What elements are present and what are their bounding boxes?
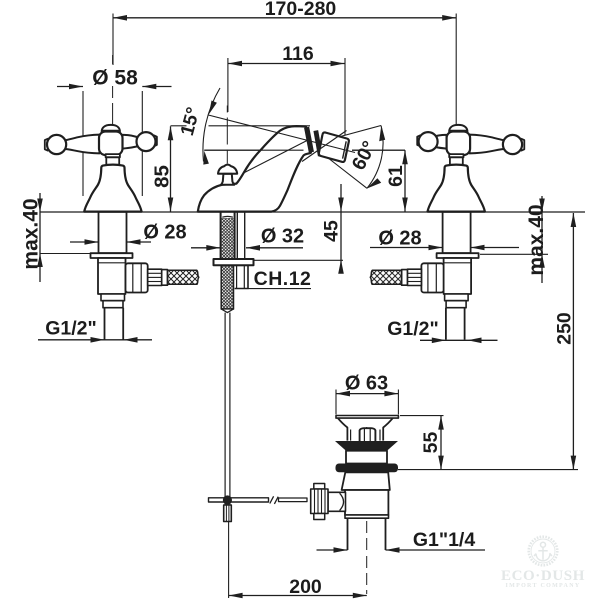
drain body upper [346,451,387,464]
15 deg line over spout [250,126,355,153]
right flange [437,253,479,258]
drain lower body [345,490,388,515]
dimension 116 [228,58,345,136]
right reducers [445,294,469,301]
dimension 55 drain [398,416,578,470]
left handle centerline [112,55,114,124]
right hose ferrule [402,270,408,286]
left reducers [101,294,125,301]
right handle ball tip inner [417,135,420,146]
drain top flange [336,416,398,419]
15 degree construct [203,88,250,165]
svg-text:ECO·DUSH: ECO·DUSH [501,568,585,584]
left braided hose [168,270,199,284]
svg-text:Ø 32: Ø 32 [261,226,304,248]
svg-text:170-280: 170-280 [265,0,337,20]
left G1/2 pipe [105,308,124,340]
CH.12 label with leader [248,288,311,290]
horizontal reference line redraw over body [204,149,405,151]
left handle hub [99,132,123,156]
svg-text:61: 61 [385,165,407,187]
svg-text:45: 45 [321,220,343,242]
left handle arm left [65,135,100,154]
right handle bell [427,165,484,212]
dimension max.40 left [37,193,91,282]
right stem [443,212,471,253]
pop-up vertical rod [225,313,230,505]
drain bottom flange [345,515,389,518]
left hex nut [126,263,148,292]
left handle bell [84,165,141,212]
right handle ball outer [503,135,522,154]
shank mounting nut CH12 [235,265,248,288]
right handle ball tip outer [521,139,524,151]
watermark logo [501,537,585,589]
drain assembly [311,416,399,595]
svg-text:Ø 63: Ø 63 [345,373,388,395]
right braided hose [370,270,401,284]
left handle assembly [45,125,199,340]
right handle arm outer [470,135,505,154]
right handle neck [449,154,463,157]
left handle ball tip right [154,135,157,146]
drain funnel [338,418,393,441]
dimension G1/2 right [420,338,498,344]
anchor [541,542,546,547]
dimension D58 above left handle [57,84,172,196]
left flange [91,253,133,258]
left handle cap [102,125,120,132]
drain plug knob [360,428,376,441]
svg-text:G1"1/4: G1"1/4 [413,529,476,551]
dimension 200 bottom [229,522,367,598]
60 degree cone [323,125,385,188]
svg-text:200: 200 [289,576,322,598]
dimension 85 [168,126,310,212]
left handle ball tip left [45,139,48,151]
dimension 61 [402,150,408,211]
aerator body [319,132,349,161]
faucet body [198,126,311,212]
dimension 45 [254,184,344,274]
right handle cap [449,125,467,132]
svg-text:60°: 60° [348,137,381,173]
svg-text:G1/2": G1/2" [387,318,439,340]
right handle assembly (mirror) [370,125,524,340]
svg-text:15°: 15° [176,105,204,138]
svg-text:G1/2": G1/2" [45,318,97,340]
thin line across nozzle [302,131,347,162]
right hex nut [421,263,443,292]
dimension D63 drain [336,390,398,415]
svg-text:85: 85 [151,165,174,188]
right valve body [444,258,472,294]
dimension D28 left [70,239,151,245]
dimension D28 right [370,245,519,251]
rod break marks [270,496,278,504]
dimension G1/2 left [38,337,152,343]
drain rod nut [314,484,325,490]
pop-up crossbar [209,498,269,502]
pop-up pivot ball [223,495,232,504]
right compression fitting [407,269,421,285]
dimension D32 center [191,245,303,251]
right handle arm inner [432,135,447,149]
left handle ball left [47,135,66,154]
pop-up rod knurled end [224,505,232,522]
svg-text:250: 250 [554,312,576,345]
aerator collar band [307,127,312,152]
left compression fitting [148,269,162,285]
faucet centerline [226,106,228,164]
svg-text:max.40: max.40 [525,204,548,275]
dimension max.40 right [480,196,548,283]
dimension 250 right [571,213,577,470]
shank lower threaded part [221,265,233,309]
svg-text:Ø 28: Ø 28 [143,222,186,244]
svg-text:IMPORT COMPANY: IMPORT COMPANY [506,583,581,589]
svg-text:Ø 58: Ø 58 [92,67,138,90]
svg-text:Ø 28: Ø 28 [378,228,421,250]
right handle hub [447,132,471,156]
faucet pop-up knob [218,165,237,174]
left valve body [98,258,126,294]
aerator ring 2 [316,131,321,156]
horizontal reference line through nozzle [204,149,405,151]
left hose ferrule [162,270,168,286]
drain rubber gasket [335,441,398,451]
dimension 170-280 top [113,14,456,128]
drain cone section [342,472,390,490]
drain black band [336,464,399,473]
dimension G1 1/4 drain [317,547,486,553]
right G1/2 pipe [446,308,465,340]
horizontal rod to drain [279,498,308,502]
left stem [99,212,127,253]
svg-text:55: 55 [420,432,442,454]
drain tailpipe G1 1/4 [348,518,386,550]
spout inner edge line [244,140,308,173]
drain centerline [366,427,368,594]
svg-text:116: 116 [282,43,314,65]
left handle ball right [137,132,156,151]
deck line [40,211,585,213]
right handle ball inner [419,132,438,151]
svg-text:max.40: max.40 [20,198,43,269]
left handle arm right [123,135,138,149]
faucet shank flange [214,259,254,265]
faucet threaded shank tube above flange [237,212,244,259]
svg-text:CH.12: CH.12 [254,268,312,290]
drain rod port [328,492,346,511]
left handle neck [106,154,120,157]
